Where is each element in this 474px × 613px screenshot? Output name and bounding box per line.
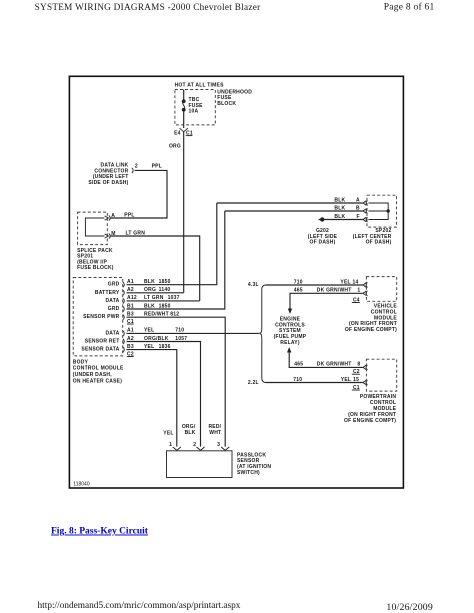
svg-text:1: 1 xyxy=(169,442,172,448)
svg-text:RED/WHT: RED/WHT xyxy=(144,312,169,318)
svg-text:710: 710 xyxy=(293,377,302,383)
svg-text:B: B xyxy=(356,205,360,211)
svg-text:YEL: YEL xyxy=(340,279,350,285)
svg-text:15: 15 xyxy=(353,377,359,383)
svg-text:A: A xyxy=(111,213,115,219)
svg-text:10A: 10A xyxy=(189,109,199,115)
svg-text:YEL: YEL xyxy=(144,328,154,334)
svg-text:1850: 1850 xyxy=(159,303,171,309)
svg-text:OF DASH): OF DASH) xyxy=(366,240,392,246)
svg-text:ORG/BLK: ORG/BLK xyxy=(144,336,169,342)
svg-text:4.3L: 4.3L xyxy=(248,282,259,288)
svg-text:YEL: YEL xyxy=(144,344,154,350)
svg-text:465: 465 xyxy=(294,288,303,294)
svg-text:Fig. 8: Pass-Key Circuit: Fig. 8: Pass-Key Circuit xyxy=(51,527,149,537)
svg-text:OF DASH): OF DASH) xyxy=(310,240,336,246)
svg-text:DATA: DATA xyxy=(105,298,119,304)
svg-text:CONTROL MODULE: CONTROL MODULE xyxy=(73,366,124,372)
svg-text:(UNDER DASH,: (UNDER DASH, xyxy=(73,372,112,378)
svg-text:8: 8 xyxy=(357,362,360,368)
svg-text:GRD: GRD xyxy=(108,306,120,312)
svg-text:B3: B3 xyxy=(127,312,134,318)
svg-text:Page 8 of 61: Page 8 of 61 xyxy=(384,2,435,13)
svg-text:1140: 1140 xyxy=(159,287,171,293)
svg-text:2.2L: 2.2L xyxy=(248,380,259,386)
svg-text:BLK: BLK xyxy=(185,430,196,436)
svg-text:ORG: ORG xyxy=(169,144,181,150)
svg-text:14: 14 xyxy=(352,279,358,285)
svg-text:3: 3 xyxy=(217,442,220,448)
svg-text:BLK: BLK xyxy=(334,214,345,220)
svg-text:A1: A1 xyxy=(127,279,134,285)
svg-text:812: 812 xyxy=(170,312,179,318)
svg-text:ORG: ORG xyxy=(144,287,156,293)
svg-text:BLOCK: BLOCK xyxy=(217,101,236,107)
svg-text:710: 710 xyxy=(294,279,303,285)
svg-text:SYSTEM WIRING DIAGRAMS -2000 C: SYSTEM WIRING DIAGRAMS -2000 Chevrolet B… xyxy=(35,2,261,12)
svg-text:DK GRN/WHT: DK GRN/WHT xyxy=(317,362,352,368)
svg-text:1037: 1037 xyxy=(168,295,180,301)
svg-text:E4: E4 xyxy=(174,130,181,136)
svg-text:BLK: BLK xyxy=(334,197,345,203)
svg-text:PPL: PPL xyxy=(152,163,162,169)
svg-text:A: A xyxy=(356,197,360,203)
svg-text:SENSOR DATA: SENSOR DATA xyxy=(81,347,119,353)
svg-text:BATTERY: BATTERY xyxy=(95,290,120,296)
svg-text:1: 1 xyxy=(357,288,360,294)
svg-text:A1: A1 xyxy=(127,328,134,334)
svg-text:SENSOR RET: SENSOR RET xyxy=(85,339,120,345)
svg-text:2: 2 xyxy=(135,163,138,169)
svg-text:B1: B1 xyxy=(127,303,134,309)
svg-text:SWITCH): SWITCH) xyxy=(237,470,260,476)
svg-text:YEL: YEL xyxy=(163,430,173,436)
svg-text:465: 465 xyxy=(294,362,303,368)
svg-text:OF ENGINE COMPT): OF ENGINE COMPT) xyxy=(344,418,396,424)
svg-text:1836: 1836 xyxy=(159,344,171,350)
svg-text:B3: B3 xyxy=(127,344,134,350)
svg-text:710: 710 xyxy=(175,328,184,334)
svg-text:2: 2 xyxy=(193,442,196,448)
svg-text:SIDE OF DASH): SIDE OF DASH) xyxy=(88,180,128,186)
svg-text:BODY: BODY xyxy=(73,359,89,365)
svg-text:1057: 1057 xyxy=(175,336,187,342)
svg-text:1850: 1850 xyxy=(159,279,171,285)
svg-text:YEL: YEL xyxy=(341,377,351,383)
svg-text:F: F xyxy=(357,214,360,220)
svg-text:118040: 118040 xyxy=(73,482,90,488)
svg-text:DK GRN/WHT: DK GRN/WHT xyxy=(317,288,352,294)
svg-text:BLK: BLK xyxy=(144,279,155,285)
svg-text:HOT AT ALL TIMES: HOT AT ALL TIMES xyxy=(175,83,225,89)
svg-text:http://ondemand5.com/mric/comm: http://ondemand5.com/mric/common/asp/pri… xyxy=(38,601,241,611)
svg-text:DATA: DATA xyxy=(105,330,119,336)
svg-text:RELAY): RELAY) xyxy=(280,340,300,346)
svg-text:A2: A2 xyxy=(127,287,134,293)
svg-text:ON HEATER CASE): ON HEATER CASE) xyxy=(73,378,122,384)
svg-text:SENSOR PWR: SENSOR PWR xyxy=(83,314,120,320)
svg-text:GRD: GRD xyxy=(108,282,120,288)
svg-text:FUSE BLOCK): FUSE BLOCK) xyxy=(77,265,114,271)
svg-text:10/26/2009: 10/26/2009 xyxy=(386,602,433,613)
svg-text:A2: A2 xyxy=(127,336,134,342)
svg-text:OF ENGINE COMPT): OF ENGINE COMPT) xyxy=(345,327,397,333)
svg-text:BLK: BLK xyxy=(144,303,155,309)
svg-text:WHT: WHT xyxy=(209,430,221,436)
svg-text:A12: A12 xyxy=(127,295,137,301)
svg-text:BLK: BLK xyxy=(334,205,345,211)
svg-text:PPL: PPL xyxy=(124,212,134,218)
svg-text:LT GRN: LT GRN xyxy=(144,295,164,301)
